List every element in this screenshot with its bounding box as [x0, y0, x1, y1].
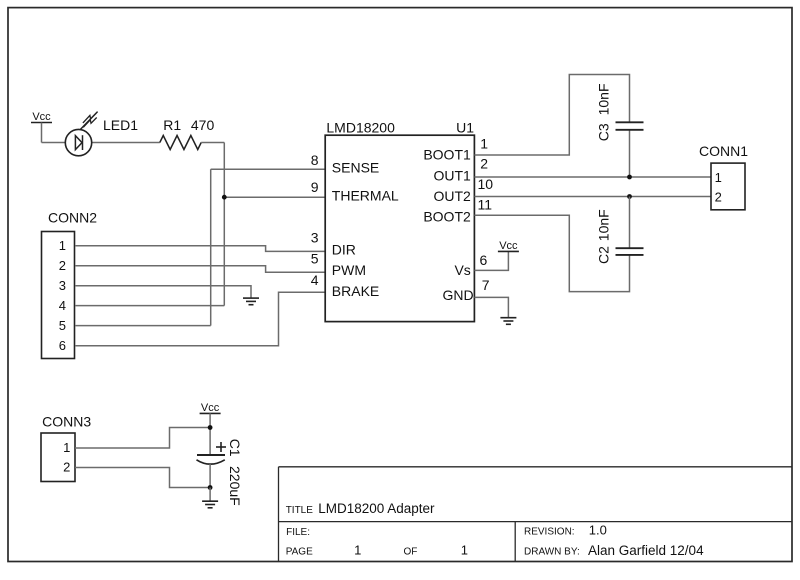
- svg-text:2: 2: [63, 460, 70, 475]
- svg-text:3: 3: [59, 278, 66, 293]
- svg-text:DRAWN BY:: DRAWN BY:: [524, 546, 580, 557]
- svg-text:C3: C3: [596, 123, 612, 141]
- svg-text:LED1: LED1: [103, 117, 138, 133]
- svg-text:REVISION:: REVISION:: [524, 527, 575, 538]
- svg-text:2: 2: [715, 190, 722, 205]
- svg-text:6: 6: [480, 252, 488, 268]
- svg-text:470: 470: [191, 117, 215, 133]
- svg-text:U1: U1: [456, 119, 474, 135]
- svg-text:9: 9: [311, 179, 319, 195]
- svg-text:8: 8: [311, 152, 319, 168]
- svg-text:PAGE: PAGE: [286, 546, 313, 557]
- svg-text:DIR: DIR: [332, 242, 356, 258]
- svg-text:CONN2: CONN2: [48, 210, 97, 226]
- svg-text:10nF: 10nF: [596, 83, 612, 115]
- svg-text:6: 6: [59, 338, 66, 353]
- svg-text:C1: C1: [227, 439, 243, 457]
- svg-text:C2: C2: [596, 246, 612, 264]
- svg-text:10: 10: [478, 176, 494, 192]
- svg-text:OF: OF: [404, 546, 418, 557]
- svg-text:1.0: 1.0: [589, 523, 607, 538]
- svg-text:2: 2: [59, 258, 66, 273]
- svg-text:4: 4: [311, 272, 319, 288]
- svg-text:LMD18200: LMD18200: [326, 119, 395, 135]
- svg-text:Vcc: Vcc: [499, 240, 518, 252]
- svg-text:OUT1: OUT1: [433, 167, 471, 183]
- svg-text:LMD18200 Adapter: LMD18200 Adapter: [318, 501, 435, 516]
- svg-text:1: 1: [480, 136, 488, 152]
- svg-text:1: 1: [59, 238, 66, 253]
- svg-text:BRAKE: BRAKE: [332, 283, 379, 299]
- svg-text:FILE:: FILE:: [286, 527, 310, 538]
- svg-text:R1: R1: [163, 117, 181, 133]
- svg-text:1: 1: [461, 542, 468, 557]
- svg-text:PWM: PWM: [332, 262, 366, 278]
- svg-text:BOOT2: BOOT2: [423, 208, 471, 224]
- svg-text:10nF: 10nF: [596, 209, 612, 241]
- svg-text:5: 5: [59, 318, 66, 333]
- svg-text:1: 1: [63, 440, 70, 455]
- svg-text:OUT2: OUT2: [433, 188, 471, 204]
- svg-text:THERMAL: THERMAL: [332, 187, 399, 203]
- svg-text:TITLE: TITLE: [286, 505, 314, 516]
- svg-text:Alan Garfield 12/04: Alan Garfield 12/04: [588, 543, 704, 558]
- svg-text:GND: GND: [442, 287, 473, 303]
- svg-text:11: 11: [478, 196, 493, 212]
- svg-text:5: 5: [311, 251, 319, 267]
- svg-text:Vcc: Vcc: [32, 111, 51, 123]
- svg-text:CONN1: CONN1: [699, 143, 748, 159]
- svg-text:SENSE: SENSE: [332, 160, 379, 176]
- svg-text:2: 2: [480, 156, 488, 172]
- svg-text:Vs: Vs: [454, 262, 470, 278]
- svg-text:1: 1: [354, 542, 361, 557]
- svg-text:1: 1: [715, 170, 722, 185]
- svg-text:220uF: 220uF: [227, 466, 243, 506]
- svg-text:CONN3: CONN3: [42, 413, 91, 429]
- svg-text:BOOT1: BOOT1: [423, 146, 471, 162]
- svg-text:3: 3: [311, 229, 319, 245]
- svg-text:Vcc: Vcc: [201, 402, 220, 414]
- svg-text:7: 7: [482, 277, 490, 293]
- svg-text:4: 4: [59, 298, 66, 313]
